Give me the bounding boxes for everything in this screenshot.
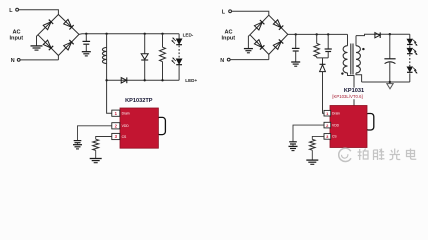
bridge rectifier BR2 frame [250,15,288,54]
IC U2 body [330,106,367,148]
DC rail wire (right circuit) [288,34,348,45]
resistor R2 at U1 CS [93,139,99,158]
svg-text:Input: Input [222,36,236,42]
capacitor C2 at U1 VDD [74,141,82,145]
clamp diode D11 (pointing up) [320,64,326,71]
T1 core [351,44,353,75]
label AC Input right [222,30,236,42]
T1 secondary polarity dot [362,48,364,50]
U1 pin name CS [122,135,127,139]
U1 pin2 wire [78,126,112,141]
wire N2 to bridge bottom [230,54,269,59]
IC U2 KP1031 label [344,88,364,94]
wire clamp to U2 drain pin [323,72,325,114]
label LED+ [185,78,197,83]
terminal N (left circuit) [17,59,20,62]
LED1 arrows [172,38,176,44]
LED4 [407,48,413,54]
transformer T1 primary winding [343,46,354,106]
IC U2 sub label [332,94,362,99]
svg-text:CS: CS [332,135,337,139]
terminal L (left circuit) [16,8,19,11]
node at inductor column [105,33,107,35]
BR2 diode D9 (lower-left) [254,40,264,50]
svg-text:LED-: LED- [183,32,194,37]
output capacitor C5 (electrolytic) [384,34,395,82]
resistor R4 at U2 CS [310,139,316,160]
IC U1 KP1032TP label [125,98,153,104]
IC U1 body [120,108,158,148]
diode D6 (vertical, pointing down) [141,34,148,81]
U1 pin name VDD [122,124,130,128]
svg-text:VDD: VDD [332,123,340,127]
label L right [222,10,226,16]
U2 pin 3 box [324,134,331,140]
output rectifier diode D12 [375,32,380,38]
junction at D6 bottom [144,79,146,81]
U2 pin2 wire [293,125,324,142]
output LED column wire [409,34,411,82]
watermark text 铂胜光电 [358,149,417,161]
U1 pin name Drain [122,112,130,116]
label LED- [183,32,194,37]
ground under R4 [306,160,318,164]
label N [11,58,15,64]
secondary bottom rail [362,81,410,83]
dashed wire (more LEDs right) [409,55,411,67]
capacitor C1 [83,34,91,52]
svg-text:[KP103L/VT0.6]: [KP103L/VT0.6] [332,94,362,99]
wire L2 to bridge top [232,11,269,15]
U1 pin 2 box [112,123,120,129]
svg-text:Input: Input [10,36,24,42]
U2 pin name VDD [332,123,340,127]
LED2 arrows [172,58,176,64]
bridge diode D4 (lower-right) [64,40,74,50]
secondary ground arrow [387,82,393,89]
terminal N (right circuit) [227,58,230,61]
ground under C1 [82,52,91,56]
wire N to bridge bottom [20,56,58,60]
BR2 diode D10 (lower-right) [273,39,283,49]
U2 pin 2 box [324,122,331,128]
U1 pin 1 box [112,110,120,116]
ground under R2 [90,159,102,163]
label N right [220,58,224,64]
snubber resistor R3 [314,34,320,58]
LED2 [176,59,182,65]
BR2 diode D8 (upper-right) [273,20,283,30]
U1 pin3 wire [96,137,112,140]
bridge rectifier BR1 frame [38,15,79,56]
bridge diode D2 (upper-right) [64,19,74,29]
U2 pin name CS [332,135,337,139]
capacitor C3 [292,34,300,61]
capacitor C6 at U2 VDD [289,142,297,146]
ground at bridge left vertex [31,35,43,50]
U1 pin 3 box [112,133,120,139]
snubber join wire [317,58,329,64]
svg-text:KP1032TP: KP1032TP [125,98,153,104]
ground under C6 [289,146,298,150]
ground at BR2 left vertex [244,35,253,53]
LED4 arrows [413,49,417,55]
svg-text:Drain: Drain [332,112,340,116]
bridge diode D3 (lower-left) [43,40,53,50]
LED1 [176,39,182,45]
U2 pin3 wire [312,136,324,139]
snubber capacitor C4 [325,34,332,58]
svg-text:N: N [220,58,224,64]
DC rail wire (left circuit) [79,33,179,36]
junction at drain/bottom wire [105,79,107,81]
IC U1 package tab [157,117,166,134]
junction at R1 bottom [161,79,163,81]
ground under C2 [73,145,82,149]
node at snubber cap C4 [327,33,329,35]
svg-text:N: N [11,58,15,64]
node at diode D6 column top [144,33,146,35]
svg-text:VDD: VDD [122,124,130,128]
U2 pin name Drain [332,112,340,116]
label AC Input [10,30,24,42]
inductor L1 [102,48,106,64]
bridge diode D1 (upper-left) [43,20,53,30]
wire L to bridge top [19,10,59,15]
LED5 arrows [413,68,417,74]
node at resistor R1 top [161,33,163,35]
node at input cap C3 [295,33,297,35]
T1 secondary winding [356,36,362,82]
svg-text:Drain: Drain [122,112,130,116]
bottom wire (left circuit) [107,79,180,81]
U2 pin 1 box [324,110,331,116]
freewheel diode D5 on bottom wire [121,77,127,83]
watermark logo [339,148,351,161]
ground under C3 [291,62,300,66]
terminal L (right circuit) [229,10,232,13]
node at input cap C1 [85,33,87,35]
svg-text:CS: CS [122,135,127,139]
resistor R1 [160,34,166,81]
dashed wire (more LEDs) [178,46,180,59]
IC U2 package tab [365,114,374,131]
LED5 [407,67,413,73]
node at snubber resistor R3 [316,33,318,35]
label L [9,8,13,14]
LED3 arrows [413,40,417,46]
wire drain column [107,34,112,113]
junction C5 bottom [389,81,391,83]
LED3 [407,39,413,45]
BR2 diode D7 (upper-left) [254,20,264,30]
T1 primary polarity dot [341,72,343,74]
node at output cap C5 [389,33,391,35]
svg-text:LED+: LED+ [185,78,197,83]
LED string column wire [178,34,180,81]
secondary top rail [356,34,410,35]
